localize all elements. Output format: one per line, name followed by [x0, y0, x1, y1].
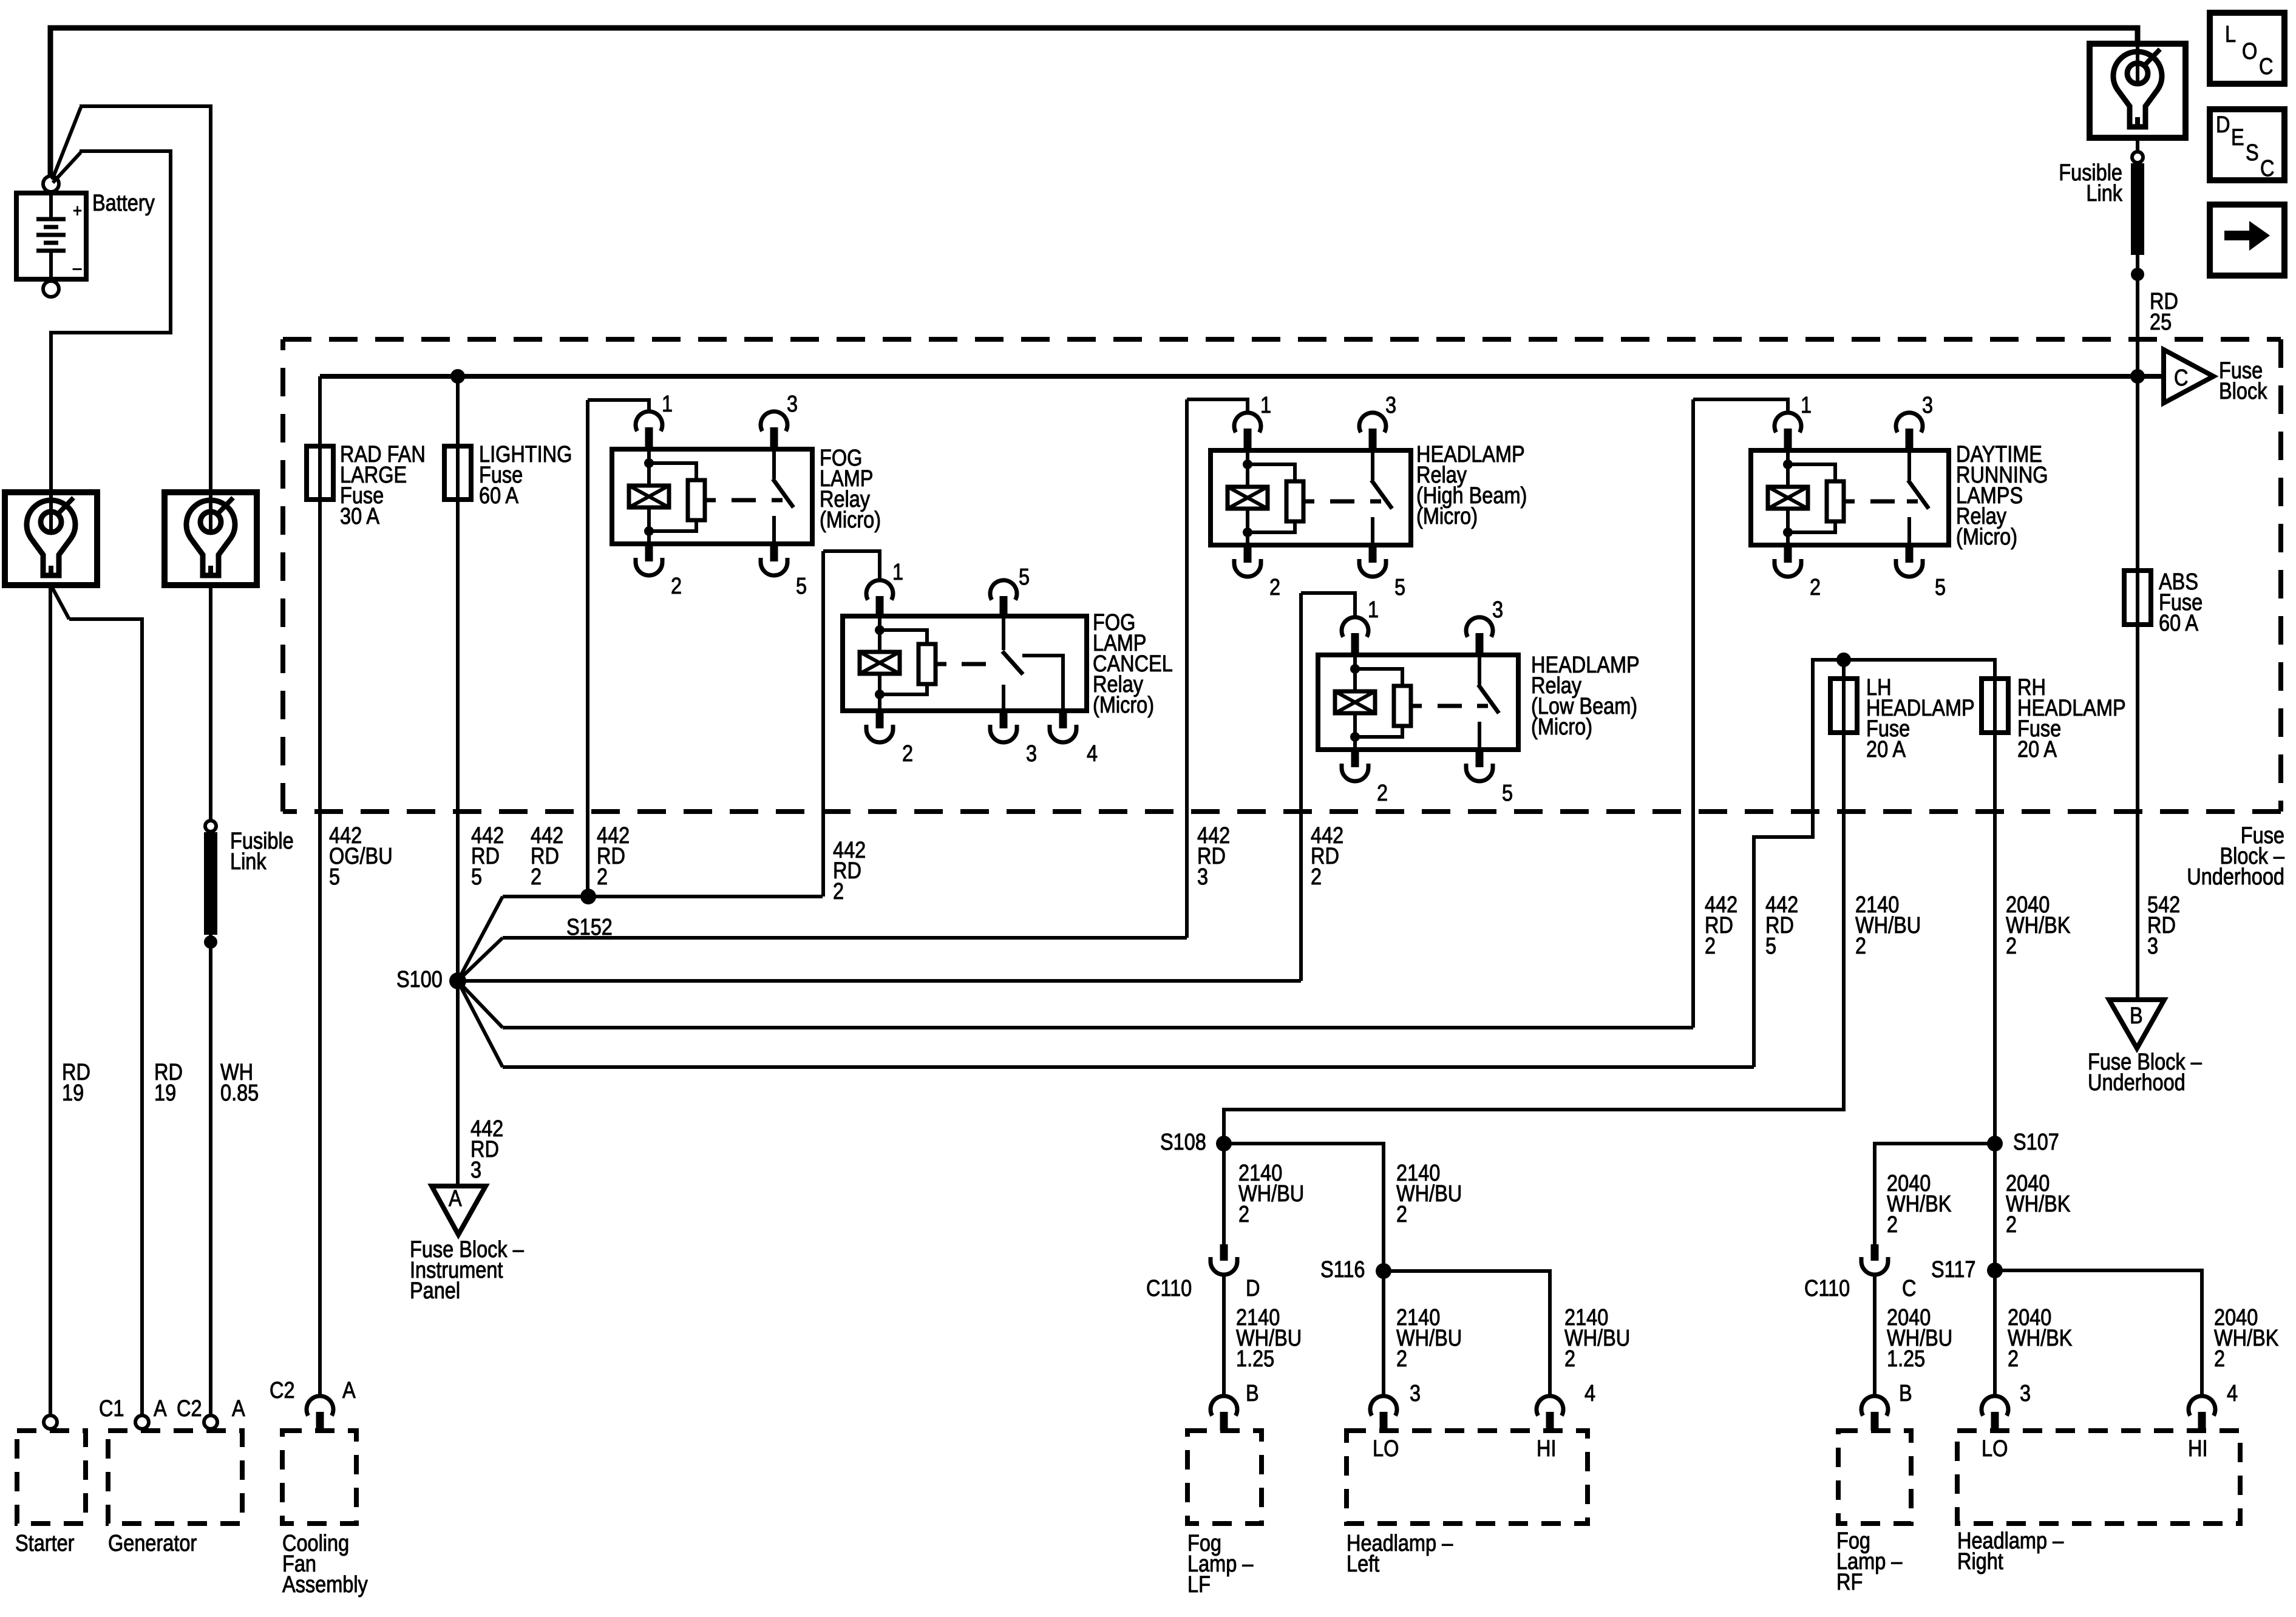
svg-text:2040WH/BK2: 2040WH/BK2 [1887, 1171, 1952, 1238]
svg-text:FOGLAMPCANCELRelay(Micro): FOGLAMPCANCELRelay(Micro) [1093, 610, 1173, 718]
svg-text:B: B [1899, 1381, 1912, 1406]
svg-text:E: E [2231, 125, 2244, 151]
svg-text:442RD3: 442RD3 [1197, 823, 1230, 890]
svg-text:3: 3 [1922, 393, 1933, 418]
svg-text:3: 3 [1410, 1381, 1421, 1406]
svg-text:FuseBlock: FuseBlock [2219, 358, 2267, 404]
svg-text:442RD2: 442RD2 [833, 838, 866, 904]
svg-text:1: 1 [1368, 597, 1379, 623]
svg-text:2: 2 [1377, 781, 1388, 806]
svg-text:+: + [73, 200, 82, 220]
svg-text:442RD5: 442RD5 [471, 823, 504, 890]
svg-text:1: 1 [662, 392, 673, 417]
svg-text:FusibleLink: FusibleLink [2059, 160, 2122, 206]
svg-text:HI: HI [2188, 1436, 2207, 1462]
svg-text:C: C [2260, 156, 2274, 181]
svg-text:Starter: Starter [15, 1531, 75, 1556]
svg-text:3: 3 [1385, 393, 1396, 418]
svg-text:442RD3: 442RD3 [470, 1116, 503, 1183]
svg-text:1: 1 [892, 560, 903, 585]
svg-text:LO: LO [1373, 1436, 1399, 1462]
svg-text:C: C [1902, 1276, 1916, 1301]
svg-text:2040WH/BK2: 2040WH/BK2 [2006, 1171, 2071, 1238]
svg-text:5: 5 [1394, 575, 1405, 600]
svg-text:RD19: RD19 [62, 1060, 90, 1106]
svg-text:Generator: Generator [108, 1531, 197, 1556]
svg-text:442RD5: 442RD5 [1765, 892, 1798, 959]
svg-text:FuseBlock –Underhood: FuseBlock –Underhood [2187, 823, 2284, 890]
svg-text:2140WH/BU2: 2140WH/BU2 [1396, 1161, 1462, 1227]
svg-text:FOGLAMPRelay(Micro): FOGLAMPRelay(Micro) [820, 446, 881, 533]
svg-text:D: D [1246, 1276, 1260, 1301]
svg-text:2: 2 [902, 741, 913, 767]
svg-text:C110: C110 [1804, 1276, 1850, 1301]
svg-text:A: A [232, 1396, 245, 1422]
svg-text:5: 5 [1502, 781, 1513, 806]
svg-text:3: 3 [1026, 741, 1037, 767]
svg-text:C: C [2259, 54, 2273, 80]
svg-text:442RD2: 442RD2 [531, 823, 563, 890]
svg-text:B: B [2130, 1003, 2143, 1029]
svg-text:ABSFuse60 A: ABSFuse60 A [2159, 569, 2203, 636]
svg-text:4: 4 [1584, 1381, 1595, 1406]
svg-text:S100: S100 [396, 967, 443, 992]
svg-text:FusibleLink: FusibleLink [230, 829, 294, 875]
svg-text:S108: S108 [1160, 1130, 1206, 1155]
svg-text:HI: HI [1537, 1436, 1556, 1462]
svg-text:5: 5 [1019, 564, 1030, 590]
svg-text:C1: C1 [99, 1396, 124, 1422]
svg-text:3: 3 [787, 392, 798, 417]
svg-text:RHHEADLAMPFuse20 A: RHHEADLAMPFuse20 A [2017, 675, 2126, 762]
svg-text:D: D [2216, 112, 2230, 138]
svg-text:2140WH/BU1.25: 2140WH/BU1.25 [1236, 1305, 1302, 1372]
svg-text:HEADLAMPRelay(Low Beam)(Micro): HEADLAMPRelay(Low Beam)(Micro) [1531, 653, 1640, 740]
svg-text:442RD2: 442RD2 [1705, 892, 1737, 959]
svg-text:2040WH/BK2: 2040WH/BK2 [2008, 1305, 2073, 1372]
svg-text:2040WH/BU1.25: 2040WH/BU1.25 [1887, 1305, 1952, 1372]
svg-text:S152: S152 [566, 915, 613, 940]
svg-text:2040WH/BK2: 2040WH/BK2 [2006, 892, 2071, 959]
svg-text:A: A [449, 1186, 462, 1212]
svg-text:2140WH/BU2: 2140WH/BU2 [1564, 1305, 1630, 1372]
svg-text:S: S [2246, 140, 2259, 166]
svg-text:Headlamp –Left: Headlamp –Left [1347, 1531, 1453, 1577]
svg-text:Fuse Block –Underhood: Fuse Block –Underhood [2088, 1049, 2202, 1096]
svg-text:C2: C2 [270, 1378, 295, 1403]
svg-text:5: 5 [796, 574, 807, 599]
svg-text:2140WH/BU2: 2140WH/BU2 [1855, 892, 1921, 959]
svg-text:A: A [342, 1378, 356, 1403]
svg-text:HEADLAMPRelay(High Beam)(Micro: HEADLAMPRelay(High Beam)(Micro) [1416, 442, 1527, 529]
svg-text:2: 2 [1810, 575, 1821, 600]
svg-text:4: 4 [2227, 1381, 2238, 1406]
svg-text:442RD2: 442RD2 [1311, 823, 1343, 890]
svg-text:CoolingFanAssembly: CoolingFanAssembly [282, 1531, 368, 1598]
svg-text:S107: S107 [2013, 1130, 2059, 1155]
svg-text:2: 2 [671, 574, 682, 599]
svg-text:442RD2: 442RD2 [597, 823, 630, 890]
svg-text:WH0.85: WH0.85 [220, 1060, 259, 1106]
svg-text:FogLamp –RF: FogLamp –RF [1836, 1528, 1903, 1595]
svg-text:2: 2 [1269, 575, 1280, 600]
svg-text:3: 3 [1492, 597, 1503, 623]
svg-text:RD19: RD19 [154, 1060, 183, 1106]
svg-text:2040WH/BK2: 2040WH/BK2 [2214, 1305, 2279, 1372]
svg-text:442OG/BU5: 442OG/BU5 [329, 823, 393, 890]
svg-text:RAD FANLARGEFuse30 A: RAD FANLARGEFuse30 A [340, 442, 426, 529]
svg-text:S116: S116 [1320, 1257, 1365, 1283]
svg-text:2140WH/BU2: 2140WH/BU2 [1396, 1305, 1462, 1372]
svg-text:O: O [2242, 39, 2257, 64]
svg-text:C: C [2174, 365, 2188, 391]
svg-text:A: A [154, 1396, 167, 1422]
svg-text:LO: LO [1982, 1436, 2008, 1462]
svg-text:Fuse Block –InstrumentPanel: Fuse Block –InstrumentPanel [410, 1237, 524, 1304]
svg-text:Battery: Battery [92, 191, 155, 216]
svg-text:Headlamp –Right: Headlamp –Right [1957, 1528, 2063, 1575]
svg-text:3: 3 [2020, 1381, 2031, 1406]
svg-text:S117: S117 [1931, 1257, 1975, 1283]
svg-text:C2: C2 [177, 1396, 202, 1422]
svg-text:4: 4 [1087, 741, 1098, 767]
svg-text:DAYTIMERUNNINGLAMPSRelay(Micro: DAYTIMERUNNINGLAMPSRelay(Micro) [1956, 442, 2048, 550]
svg-text:1: 1 [1801, 393, 1812, 418]
svg-text:B: B [1246, 1381, 1259, 1406]
svg-text:C110: C110 [1146, 1276, 1192, 1301]
svg-text:LHHEADLAMPFuse20 A: LHHEADLAMPFuse20 A [1866, 675, 1975, 762]
svg-text:2140WH/BU2: 2140WH/BU2 [1238, 1161, 1304, 1227]
svg-text:RD25: RD25 [2150, 289, 2178, 335]
svg-text:5: 5 [1935, 575, 1946, 600]
svg-text:1: 1 [1260, 393, 1271, 418]
svg-text:L: L [2225, 22, 2236, 47]
svg-text:LIGHTINGFuse60 A: LIGHTINGFuse60 A [479, 442, 572, 509]
svg-text:542RD3: 542RD3 [2147, 892, 2180, 959]
svg-text:–: – [73, 257, 82, 277]
svg-text:FogLamp –LF: FogLamp –LF [1187, 1531, 1254, 1598]
